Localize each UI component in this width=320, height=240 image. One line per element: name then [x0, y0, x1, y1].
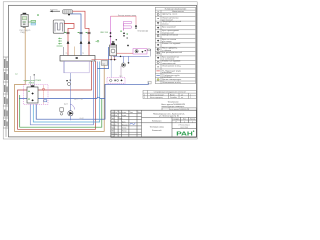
svg-text:1: 1 — [184, 121, 185, 123]
svg-text:Лист: Лист — [183, 119, 187, 121]
svg-text:1: 1 — [192, 121, 193, 123]
svg-text:Кол: Кол — [114, 115, 117, 117]
svg-text:Стадия: Стадия — [173, 119, 179, 121]
svg-text:Отопление: Отопление — [138, 31, 150, 33]
svg-text:Клапан 3-х ходовой: Клапан 3-х ходовой — [162, 42, 180, 45]
svg-text:Лист: Лист — [111, 118, 115, 120]
svg-text:Ду25: Ду25 — [64, 104, 68, 106]
svg-text:2: 2 — [144, 97, 145, 99]
svg-text:ХВС 3/4: ХВС 3/4 — [100, 32, 109, 34]
svg-text:Котов: Котов — [122, 128, 126, 130]
svg-text:Насос циркуляц.: Насос циркуляц. — [150, 97, 164, 99]
svg-text:Н.контр: Н.контр — [111, 133, 117, 135]
svg-text:Фильтр сетчатый: Фильтр сетчатый — [162, 34, 178, 37]
svg-text:газ: газ — [102, 63, 105, 65]
svg-text:Датчик температуры: Датчик температуры — [162, 79, 182, 81]
svg-text:ПЭ63: ПЭ63 — [29, 83, 35, 85]
svg-text:Дата: Дата — [137, 112, 141, 114]
svg-text:Тепловая схема: Тепловая схема — [150, 127, 165, 129]
svg-text:ООО ПКФ: ООО ПКФ — [180, 126, 189, 129]
svg-text:шт: шт — [181, 94, 183, 96]
svg-text:Контур теплого пола: Контур теплого пола — [118, 15, 137, 17]
svg-text:Наименование: Наименование — [172, 11, 184, 13]
svg-text:1: 1 — [144, 94, 145, 96]
svg-text:Bosch: Bosch — [170, 94, 175, 96]
svg-text:газ: газ — [15, 74, 18, 76]
svg-text:Циркуляц. насос: Циркуляц. насос — [162, 14, 177, 16]
svg-text:Котельной: Котельной — [152, 129, 161, 132]
svg-text:дымоход: дымоход — [50, 9, 58, 11]
svg-text:Подп: Подп — [129, 112, 133, 114]
svg-text:Кран шаровый: Кран шаровый — [162, 26, 176, 29]
svg-text:2: 2 — [190, 97, 191, 99]
svg-text:Дата: Дата — [122, 121, 126, 123]
svg-text:Т1: Т1 — [66, 53, 68, 55]
svg-text:отопления: отопления — [162, 76, 172, 78]
svg-text:шт: шт — [181, 97, 183, 99]
svg-text:Обозначение в общ.: Обозначение в общ. — [162, 65, 181, 67]
svg-text:Пров.: Пров. — [111, 128, 116, 130]
svg-text:Котел настенный: Котел настенный — [150, 93, 163, 96]
svg-text:Р: Р — [176, 121, 177, 123]
svg-text:Разраб: Разраб — [111, 124, 116, 126]
svg-text:Ду25 ПНД: Ду25 ПНД — [74, 99, 83, 101]
svg-text:Т2: Т2 — [82, 53, 84, 55]
svg-text:ПНД: ПНД — [21, 32, 26, 34]
svg-text:Котельная: Котельная — [152, 121, 161, 123]
svg-text:Иванов: Иванов — [122, 124, 128, 126]
svg-text:отопления: отопления — [162, 72, 172, 74]
svg-text:1: 1 — [190, 94, 191, 96]
svg-text:клапан: клапан — [162, 23, 168, 25]
svg-text:Бак расширительный: Бак расширительный — [162, 51, 182, 54]
svg-text:ул. Зеленая дом № 10: ул. Зеленая дом № 10 — [159, 115, 179, 118]
svg-text:№: № — [157, 10, 159, 13]
svg-text:РАН: РАН — [176, 131, 193, 137]
svg-text:Grundfos: Grundfos — [170, 96, 177, 99]
svg-text:Спецификация оборудования коте: Спецификация оборудования котельной — [154, 91, 186, 94]
svg-text:Лист: Лист — [114, 121, 118, 123]
svg-text:Подп: Подп — [118, 118, 122, 120]
svg-text:подвод газа ПЭ63: подвод газа ПЭ63 — [24, 80, 42, 82]
svg-text:Обозначение в общ.: Обозначение в общ. — [162, 82, 181, 84]
svg-text:Ду32: Ду32 — [80, 118, 84, 120]
svg-text:Листов: Листов — [190, 119, 195, 121]
svg-text:Попов: Попов — [122, 131, 127, 133]
svg-text:Кол: Кол — [114, 112, 117, 114]
